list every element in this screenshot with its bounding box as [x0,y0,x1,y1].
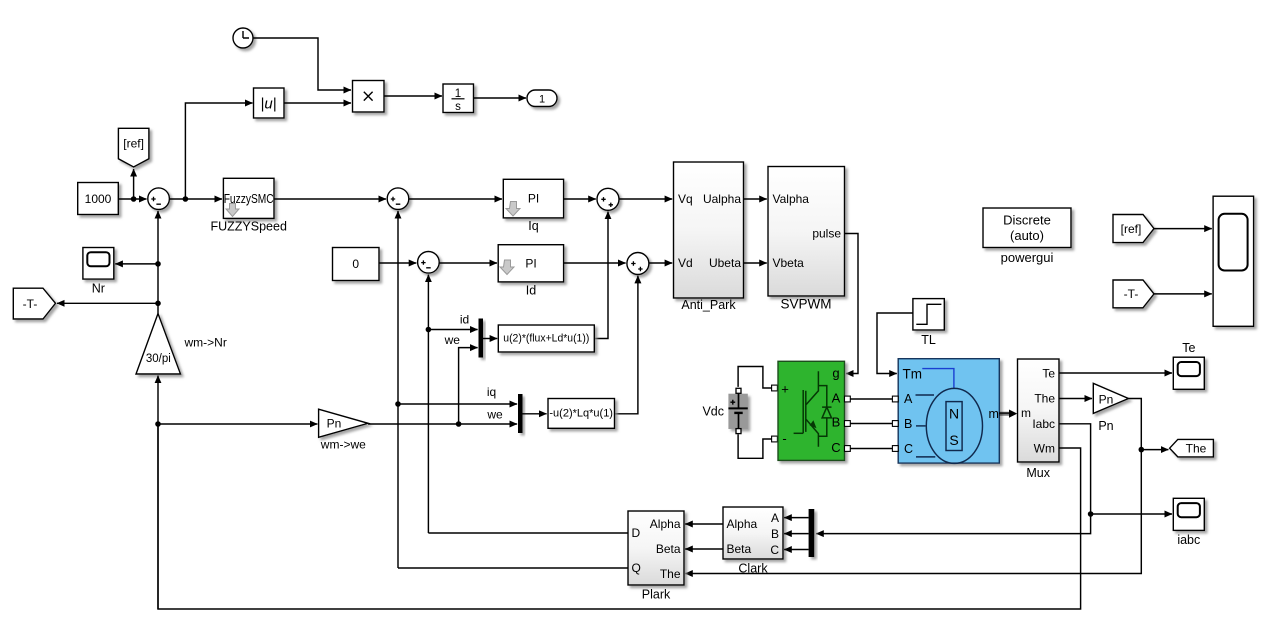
svg-text:PI: PI [525,257,536,271]
wire Plark Q to sumq loop [398,567,628,569]
svg-text:The: The [1034,392,1055,406]
wire branch up into ref tag [133,169,135,199]
subsystem SVPWM [768,167,845,297]
wire sumq to PI Iq [409,198,502,200]
svg-text:u(2)*(flux+Ld*u(1)): u(2)*(flux+Ld*u(1)) [503,333,589,345]
wire Plark D to sumd loop [428,532,628,534]
svg-text:Valpha: Valpha [773,192,810,206]
wire abs to product [284,102,351,104]
svg-text:30/pi: 30/pi [146,353,171,365]
svg-text:Te: Te [1042,366,1055,380]
svg-text:1: 1 [539,94,545,106]
svg-text:m: m [989,407,999,421]
wire phase C [850,448,892,450]
svg-text:Iq: Iq [528,219,538,233]
svg-text:wm->we: wm->we [320,438,366,452]
wire demux B to Clark [784,533,808,535]
inverter C port square [845,446,851,452]
wire Ualpha to Valpha [744,198,767,200]
from tag ref right [1113,215,1154,243]
junction iabc branch [1088,511,1094,517]
motor C port square [892,446,898,452]
wire id into mux1 [428,329,477,331]
wire sum2d to AntiPark Vd [649,262,672,264]
outport 1 [527,90,557,107]
svg-text:N: N [949,406,959,422]
scope Te [1173,357,1204,389]
wire sum2q to AntiPark Vq [619,198,672,200]
gain 30/pi [136,314,181,375]
inverter block green [778,361,845,460]
svg-text:Vdc: Vdc [702,405,724,419]
svg-text:TL: TL [921,333,936,347]
constant 0 [333,248,380,281]
svg-text:Nr: Nr [92,282,105,296]
svg-text:we: we [486,407,503,421]
wire we up to mux1 [459,348,478,424]
subsystem Anti_Park [674,162,744,298]
wire Ubeta to Vbeta [744,262,767,264]
integrator 1/s [443,84,474,113]
svg-text:iabc: iabc [1177,533,1200,547]
wire FuzzySMC to sumq [274,198,386,200]
sum d circle [418,251,440,273]
junction id branch [426,327,432,333]
wire gain 30/pi up to sum1 [157,211,159,314]
junction sum1 output [183,196,189,202]
subsystem PI Iq [503,179,563,218]
svg-text:powergui: powergui [1001,250,1054,265]
constant 1000 [78,183,119,215]
junction The branch [1139,447,1145,453]
svg-text:B: B [904,417,912,431]
wire D feedback up into sumd [427,275,429,533]
DC source Vdc [728,392,747,430]
svg-text:SVPWM: SVPWM [780,297,831,312]
svg-text:[ref]: [ref] [1121,222,1142,236]
svg-text:Ualpha: Ualpha [703,192,741,206]
scope big right [1213,196,1254,326]
svg-text:iq: iq [487,385,496,399]
svg-text:Pn: Pn [1098,419,1113,433]
wire Pn to mux2 we [368,423,517,425]
svg-text:-T-: -T- [1124,287,1139,301]
svg-text:m: m [1021,406,1031,420]
svg-text:C: C [904,442,913,456]
bus wire m to Mux [999,410,1017,418]
wire Q feedback up into sumq [397,211,399,568]
svg-text:|u|: |u| [260,96,276,113]
wire Wm down to bottom [158,425,1081,610]
junction -T- branch [155,301,161,307]
svg-text:C: C [831,440,840,455]
junction we branch [456,421,462,427]
mux2 bar [518,394,523,433]
fcn u(2)*(flux+Ld*u(1)) [498,325,594,352]
motor B port square [892,421,898,427]
wire Pn down to Plark The [685,399,1141,574]
wire to iabc scope [1091,513,1172,515]
svg-text:Iabc: Iabc [1032,417,1055,431]
svg-text:Wm: Wm [1034,441,1055,455]
goto tag ref top-left [118,128,148,167]
svg-text:-: - [782,431,786,446]
svg-text:we: we [444,333,461,347]
Vdc bottom port square [736,429,741,434]
wire to The tag [1141,449,1168,451]
svg-text:Id: Id [526,284,536,298]
svg-text:g: g [832,366,839,381]
inverter B port square [845,421,851,427]
svg-text:-u(2)*Lq*u(1): -u(2)*Lq*u(1) [549,408,613,420]
svg-text:Discrete: Discrete [1003,213,1051,228]
svg-text:A: A [904,392,913,406]
svg-text:Clark: Clark [738,562,768,576]
svg-text:s: s [455,101,461,113]
gain Pn right [1093,383,1128,413]
svg-text:S: S [949,432,958,448]
sum q circle [387,188,409,210]
motor block PMSM blue [898,359,999,464]
mux1 bar [479,319,484,358]
svg-text:Beta: Beta [727,542,752,556]
svg-text:Ubeta: Ubeta [709,256,741,270]
wire to Nr scope [115,263,158,265]
gain Pn wm->we [319,409,369,437]
wire Vdc minus to inverter [738,434,772,458]
motor A port square [892,396,898,402]
svg-text:pulse: pulse [812,227,841,241]
subsystem Plark [628,511,684,585]
wire Te to scope [1059,372,1172,374]
wire mux2 to fcn2 [523,413,547,415]
wire 0 to sumd [379,262,416,264]
wire sum1 to FuzzySMC [169,198,222,200]
wire product to integrator [384,95,442,97]
svg-text:The: The [660,567,681,581]
svg-text:Mux: Mux [1026,466,1050,480]
svg-text:Q: Q [632,561,641,575]
wire The to Pn gain [1059,398,1092,400]
svg-text:Vq: Vq [678,192,693,206]
inverter A port square [845,396,851,402]
svg-text:B: B [771,527,779,541]
scope iabc [1173,498,1204,530]
svg-text:The: The [1186,442,1207,456]
svg-text:D: D [632,526,641,540]
inverter minus port square [772,436,778,442]
wire demux C to Clark [784,549,808,551]
goto tag -T- left [13,288,55,319]
wire to -T- tag [57,302,158,304]
junction at 1000 wire [131,196,137,202]
svg-text:0: 0 [352,257,359,271]
wire 1000 to sum1 [118,198,146,200]
svg-text:Alpha: Alpha [650,517,681,531]
wire PI Iq to sum2q [564,198,596,200]
wire fcn1 up into sum2q [594,212,608,339]
wire Clark Alpha to Plark [685,523,723,525]
svg-text:1: 1 [455,88,461,100]
svg-text:Plark: Plark [642,588,671,602]
wire -T- tag to big scope [1154,293,1212,295]
junction wm branch [155,421,161,427]
wire TL to Tm [877,313,913,374]
wire sumd to PI Id [439,262,497,264]
wire iq into mux2 [398,403,517,405]
wire wm to Pn gain [158,423,317,425]
sum2d circle [627,253,649,275]
wire Vdc plus to inverter [738,367,772,389]
svg-text:C: C [770,543,779,557]
wire demux A to Clark [784,517,808,519]
product block X [353,81,385,113]
abs block |u| [254,88,285,118]
svg-text:Pn: Pn [1099,392,1114,406]
svg-text:Vbeta: Vbeta [773,256,805,270]
wire phase B [850,423,892,425]
wire ref tag to big scope [1154,228,1212,230]
svg-text:(auto): (auto) [1010,228,1044,243]
subsystem FuzzySMC [223,178,274,218]
svg-text:Beta: Beta [656,542,681,556]
svg-text:FUZZYSpeed: FUZZYSpeed [210,220,286,234]
wire sum1 branch up to abs [185,103,252,199]
svg-text:wm->Nr: wm->Nr [184,336,227,350]
wire phase A [850,398,892,400]
wire Iabc to demux [816,424,1090,534]
svg-text:Te: Te [1182,341,1195,355]
from tag -T- right [1113,280,1154,308]
wire fcn2 up into sum2d [615,276,638,414]
wire integrator to outport [474,97,527,99]
svg-text:Anti_Park: Anti_Park [681,298,736,312]
svg-text:PI: PI [528,192,539,206]
svg-text:B: B [832,415,841,430]
svg-text:Pn: Pn [327,416,342,430]
demux bar [809,509,815,557]
svg-text:Alpha: Alpha [727,517,758,531]
scope Nr [83,248,114,280]
fcn -u(2)*Lq*u(1) [548,399,615,429]
inverter plus port square [772,385,778,391]
junction Nr branch [155,261,161,267]
wire bottom up into 30/pi [157,376,159,609]
junction iq branch [395,401,401,407]
Vdc top port square [736,388,741,393]
svg-text:-T-: -T- [23,297,38,311]
wire mux1 to fcn1 [483,338,497,340]
wire PI Id to sum2d [564,262,626,264]
sum1 circle [148,188,170,210]
svg-text:Vd: Vd [678,256,693,270]
sum2q circle [597,188,619,210]
wire Clark Beta to Plark [685,548,723,550]
wire pulse to inverter g [845,234,859,374]
wire clock to product [253,38,351,90]
goto tag The [1170,439,1214,457]
svg-text:1000: 1000 [85,192,112,206]
subsystem PI Id [498,245,563,282]
svg-text:[ref]: [ref] [123,137,144,151]
svg-text:+: + [781,382,789,397]
svg-text:A: A [832,391,841,406]
subsystem Mux [1018,359,1060,462]
subsystem Clark [723,507,783,559]
svg-text:Tm: Tm [903,367,923,382]
powergui block [983,208,1071,248]
svg-text:A: A [771,511,779,525]
svg-text:id: id [460,312,469,326]
clock block [233,28,253,48]
step block TL [913,299,944,330]
